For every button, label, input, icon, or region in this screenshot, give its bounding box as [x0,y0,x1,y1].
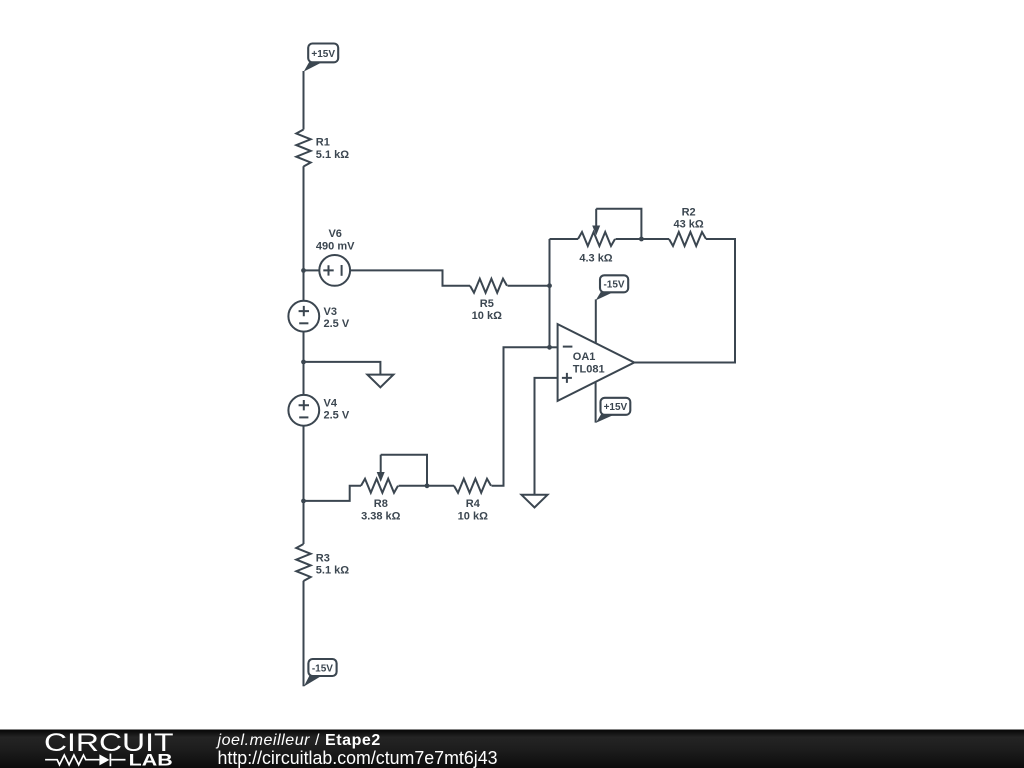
svg-text:3.38 kΩ: 3.38 kΩ [361,511,401,523]
resistor R3 [296,544,349,581]
svg-text:490 mV: 490 mV [316,241,355,253]
resistor R5 [470,279,507,322]
wire [304,362,381,375]
wire [535,378,558,495]
resistor R2 [669,206,706,246]
svg-text:R5: R5 [480,298,494,310]
svg-text:2.5 V: 2.5 V [324,410,350,422]
flag -15V bottom [304,659,337,687]
svg-text:TL081: TL081 [573,363,605,375]
svg-text:4.3 kΩ: 4.3 kΩ [579,252,612,264]
wire [399,485,455,487]
wire [550,346,558,348]
svg-text:V4: V4 [324,398,338,410]
svg-text:V6: V6 [328,228,341,240]
node [425,483,430,488]
svg-text:R1: R1 [316,137,330,149]
svg-text:V3: V3 [324,306,337,318]
wire [595,382,597,423]
svg-text:LAB: LAB [129,752,173,768]
wire [303,581,305,687]
flag -15V op-amp [596,275,629,300]
source V3 2.5 V [288,301,349,332]
wire [304,269,320,271]
wire [492,347,550,486]
svg-text:joel.meilleur / Etape2: joel.meilleur / Etape2 [216,732,381,749]
svg-text:10 kΩ: 10 kΩ [472,310,502,322]
ground [522,495,548,508]
resistor R1 [296,130,349,167]
svg-text:R8: R8 [374,498,388,510]
node [639,237,644,242]
logo resistor-diode symbol [45,754,125,767]
svg-text:OA1: OA1 [573,351,596,363]
wire [303,332,305,395]
potentiometer 4.3 kOhm [578,209,641,264]
source V4 2.5 V [288,395,349,426]
wire [303,166,305,301]
svg-text:43 kΩ: 43 kΩ [673,219,703,231]
node [301,360,306,365]
wire [508,285,550,287]
wire [303,426,305,544]
source V6 490 mV [316,228,355,286]
node [547,345,552,350]
svg-text:-15V: -15V [312,663,333,674]
wire [549,239,551,347]
svg-text:R4: R4 [466,498,481,510]
wire [303,71,305,130]
svg-text:+15V: +15V [311,49,335,60]
ground [367,375,393,388]
wire [634,239,735,363]
wire [304,486,362,501]
op-amp OA1 TL081 [558,324,635,401]
wire [550,238,579,240]
wire [616,238,670,240]
potentiometer R8 3.38 kOhm [361,455,427,523]
wire [350,270,470,285]
svg-text:R2: R2 [682,206,696,218]
svg-text:5.1 kΩ: 5.1 kΩ [316,565,349,577]
flag +15V op-amp [596,398,631,423]
svg-text:http://circuitlab.com/ctum7e7m: http://circuitlab.com/ctum7e7mt6j43 [218,748,498,768]
flag +15V top [304,44,339,72]
node [301,499,306,504]
svg-text:+15V: +15V [604,402,628,413]
svg-text:R3: R3 [316,553,330,565]
node [301,268,306,273]
wire [595,299,597,343]
svg-text:10 kΩ: 10 kΩ [458,511,488,523]
footer bar [0,730,1024,768]
svg-text:-15V: -15V [603,280,624,291]
svg-text:2.5 V: 2.5 V [324,318,350,330]
node [547,283,552,288]
svg-text:5.1 kΩ: 5.1 kΩ [316,149,349,161]
resistor R4 [454,479,491,523]
